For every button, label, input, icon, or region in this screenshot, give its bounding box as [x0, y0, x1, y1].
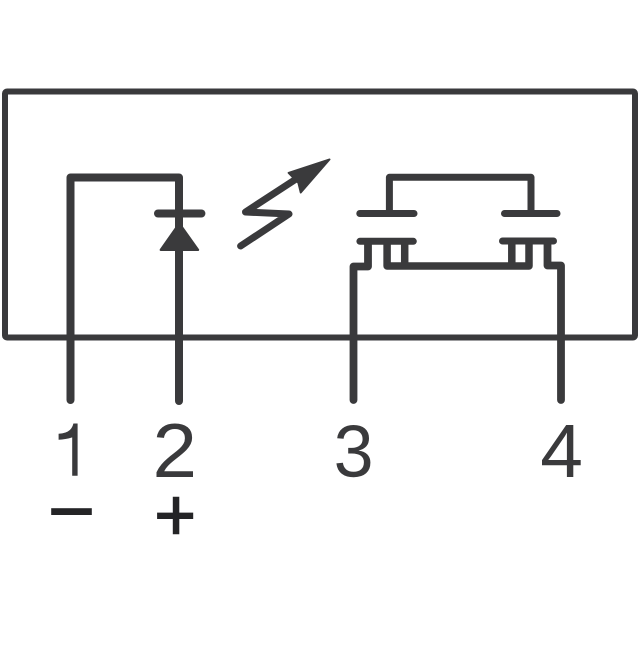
pin 3 label	[336, 425, 370, 477]
common node wire with body legs of Q1 and Q2	[387, 243, 529, 266]
mosfet Q2 gate bar	[505, 210, 558, 217]
wire pin1 to LED anode loop	[71, 178, 180, 402]
plus polarity mark	[157, 497, 193, 534]
pin 2 label	[157, 424, 194, 478]
mosfet Q1 channel bar	[360, 238, 413, 245]
mosfet Q1 drain leg	[401, 243, 409, 263]
gate interconnect wire	[389, 177, 531, 211]
pin 4 label	[542, 425, 581, 477]
light emission arrow shaft	[241, 175, 303, 247]
mosfet Q1 gate bar	[360, 210, 414, 217]
pin 1 label	[59, 424, 78, 476]
mosfet Q2 channel bar	[503, 238, 554, 245]
mosfet Q2 source leg and wire to pin 4	[548, 243, 562, 400]
light emission arrowhead	[289, 159, 330, 192]
mosfet Q1 source leg and wire to pin 3	[354, 243, 369, 400]
LED D1 triangle	[161, 223, 198, 250]
mosfet Q2 drain leg	[508, 243, 516, 263]
package outline	[5, 92, 635, 338]
minus polarity mark	[51, 508, 92, 515]
LED D1 cathode bar	[158, 210, 201, 218]
